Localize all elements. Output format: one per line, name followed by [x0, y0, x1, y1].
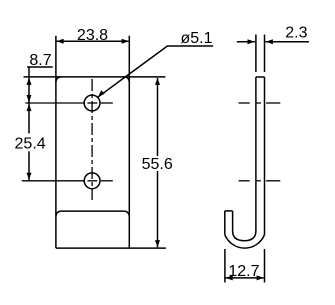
side view hole center tick 1	[239, 102, 281, 104]
arrowhead 8.7 top (up)	[27, 78, 32, 85]
arrowhead 2.3 right (points left)	[266, 39, 273, 44]
svg-text:25.4: 25.4	[15, 136, 46, 153]
hole 2	[84, 173, 100, 189]
dimension line 2.3 left part	[237, 41, 255, 43]
leader line for hole diameter	[98, 46, 213, 97]
dimension line 23.8	[57, 40, 129, 42]
hole 2 horizontal center line	[22, 180, 113, 182]
svg-text:ø5.1: ø5.1	[181, 30, 213, 47]
svg-text:2.3: 2.3	[285, 25, 307, 42]
plate left edge / extension line	[55, 36, 57, 248]
arrowhead 25.4 bottom (down)	[27, 173, 32, 180]
extension lines 2.3	[255, 35, 257, 73]
svg-text:55.6: 55.6	[142, 156, 173, 173]
arrowhead 55.6 top (up)	[155, 78, 160, 85]
arrowhead 23.8 right	[122, 39, 129, 44]
hole 1 horizontal center line	[25, 102, 112, 104]
bend left fillet arc	[56, 211, 61, 216]
arrowhead 12.7 right (points right)	[257, 275, 264, 280]
arrowhead 25.4 top (up)	[27, 104, 32, 111]
dimension line 8.7 shelf	[27, 66, 53, 68]
side view hole center tick 2	[239, 180, 281, 182]
hook outer arc	[225, 235, 265, 248]
hook tip top edge	[225, 210, 233, 212]
hole 1	[84, 95, 100, 111]
arrowhead 8.7 bottom (down)	[27, 95, 32, 102]
dimension line 12.7	[226, 277, 264, 279]
plate top edge / extension line	[24, 76, 166, 78]
arrowhead 55.6 bottom (down)	[155, 240, 160, 247]
vertical center line through holes	[91, 79, 93, 200]
svg-text:12.7: 12.7	[228, 263, 259, 280]
dimension line 2.3 right part	[265, 41, 309, 43]
svg-text:23.8: 23.8	[77, 27, 108, 44]
hook inner-left edge	[232, 211, 234, 231]
plate top-right corner arc	[124, 77, 129, 82]
arrowhead 2.3 left (points right)	[248, 39, 255, 44]
arrowhead 12.7 left (points left)	[226, 275, 233, 280]
side view strip right edge	[264, 77, 266, 235]
side view strip top edge	[256, 76, 265, 78]
bend right fillet arc	[124, 211, 129, 216]
extension lines 12.7	[224, 249, 226, 283]
dimension line 8.7 / 25.4 vertical	[28, 67, 30, 134]
side view strip left edge	[255, 77, 257, 232]
hook outer-left edge	[224, 211, 226, 235]
dimension line 55.6	[157, 78, 159, 156]
plate top-left corner arc	[56, 77, 61, 82]
plate bottom edge / extension line	[56, 247, 166, 249]
arrowhead leader (at hole)	[98, 90, 105, 97]
bend line	[61, 210, 124, 212]
hook inner arc	[233, 231, 256, 241]
plate right edge / extension line	[128, 36, 130, 248]
svg-text:8.7: 8.7	[29, 52, 51, 69]
arrowhead 23.8 left	[56, 39, 63, 44]
